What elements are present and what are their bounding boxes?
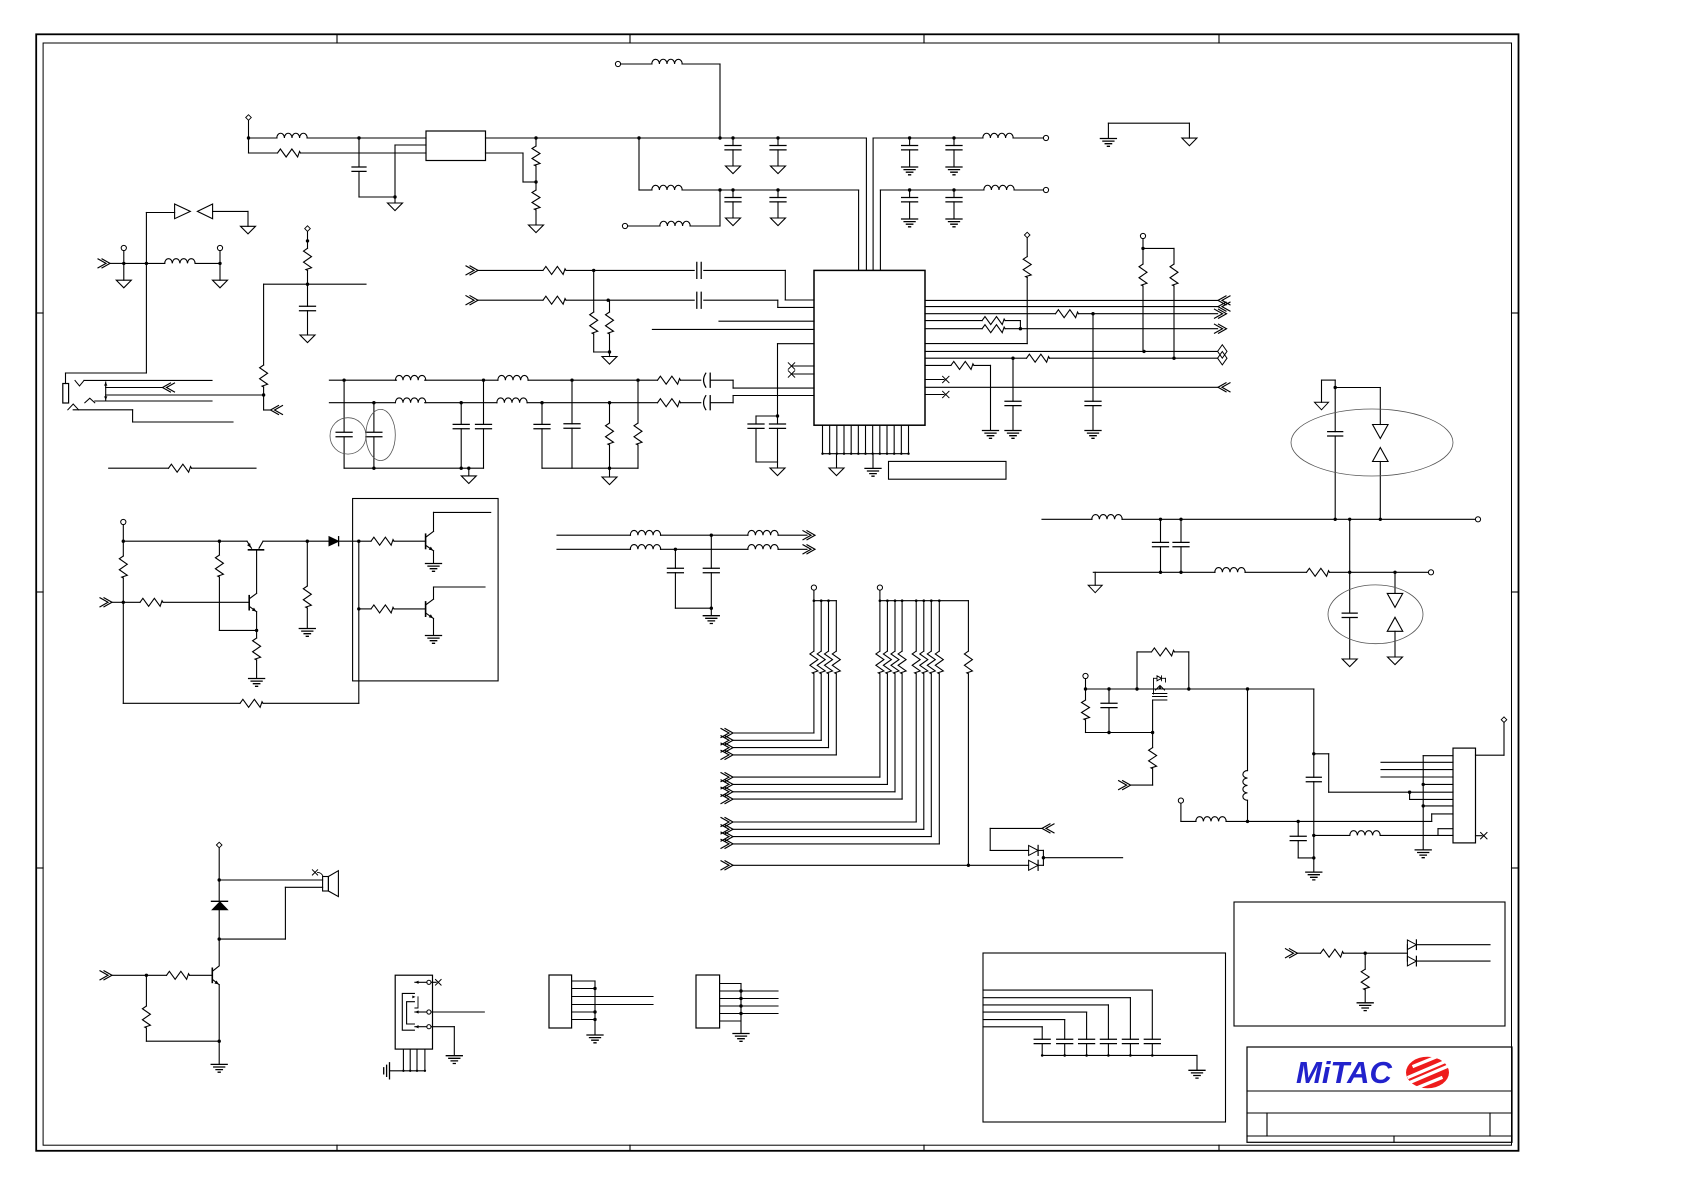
terminal J15: [877, 585, 882, 590]
diode D10: [218, 880, 220, 901]
capacitor C26: [1160, 519, 1162, 542]
ground: [587, 1035, 603, 1043]
arrow in: [1042, 824, 1054, 833]
resistor R25: [1152, 648, 1175, 656]
terminal J11: [1083, 673, 1088, 678]
net stub: [719, 320, 814, 322]
wire: [249, 137, 278, 139]
contact: [85, 398, 95, 403]
diode D9: [1029, 860, 1039, 870]
wire: [990, 827, 1042, 829]
capacitor C4: [731, 188, 734, 191]
terminal J10: [1428, 570, 1433, 575]
wire: [721, 861, 733, 870]
wire: [1416, 944, 1490, 946]
wire: [711, 402, 733, 404]
resistor R11: [609, 403, 611, 423]
jack pin3: [427, 1025, 431, 1029]
wire: [433, 619, 435, 636]
wire: [73, 409, 132, 411]
capacitor C28: [1349, 572, 1351, 613]
diode D1: [175, 204, 191, 219]
no-connect: [793, 373, 814, 375]
capacitor C20: [697, 292, 701, 308]
terminal P1: [246, 115, 252, 121]
power flag: [1094, 572, 1096, 585]
resistor R8: [307, 241, 309, 248]
capacitor C22: [777, 416, 779, 424]
wire: [778, 548, 807, 550]
jack pin2: [427, 1010, 431, 1014]
wire: [263, 540, 307, 542]
wire: [1344, 952, 1366, 954]
wire: [95, 400, 212, 402]
wire: [1014, 189, 1043, 191]
ellipse mark: [366, 409, 395, 460]
wire: [778, 343, 815, 345]
capacitor C32: [710, 535, 712, 568]
terminal P2: [305, 226, 311, 232]
resistor R23: [1307, 568, 1330, 576]
wire: [566, 299, 608, 301]
ellipse mark: [330, 418, 366, 454]
capacitor C8: [909, 190, 911, 198]
connector CN3 pins: [572, 980, 595, 982]
contact: [75, 381, 84, 387]
resistor R38: [1321, 949, 1344, 957]
wire: [557, 548, 631, 550]
capacitor C2: [731, 136, 734, 139]
wire: [638, 138, 640, 190]
resistor R28: [140, 598, 163, 606]
wire: [263, 702, 359, 704]
capacitor C29: [1108, 689, 1110, 703]
wire: [925, 364, 951, 366]
ground: [394, 197, 396, 203]
wire: [264, 283, 366, 285]
inductor L14: [1350, 831, 1380, 836]
wire: [1122, 518, 1161, 520]
diode D11: [1407, 940, 1416, 950]
wire: [112, 601, 123, 603]
wire: [661, 534, 712, 536]
capacitor C18: [571, 380, 573, 424]
wire: [974, 364, 991, 366]
jack shield pins: [402, 1049, 404, 1071]
wire: [1042, 1054, 1197, 1056]
resistor R1: [278, 149, 301, 157]
transistor Q4: [425, 602, 427, 616]
capacitor C30: [1313, 754, 1315, 778]
switch arrow: [105, 382, 107, 400]
ground: [529, 225, 544, 233]
terminal J6: [1140, 233, 1145, 238]
ground: [1415, 850, 1431, 858]
terminal P3: [1024, 232, 1030, 238]
no-connect: [1476, 835, 1483, 837]
capacitor C17: [541, 403, 543, 425]
ground: [241, 226, 256, 234]
connector CN4 pins: [720, 983, 741, 985]
wire: [858, 190, 860, 270]
inductor L3: [652, 59, 682, 64]
net out1: [925, 299, 1218, 301]
wire: [594, 351, 610, 353]
wire: [110, 262, 124, 264]
ground: [777, 462, 779, 468]
resistor array RA1: [813, 601, 815, 651]
inductor L2: [652, 185, 682, 190]
capacitor C19: [697, 262, 701, 278]
wire: [1038, 849, 1043, 851]
wire: [682, 63, 720, 65]
speaker LS1: [323, 877, 329, 892]
bus: [814, 600, 836, 602]
diode D3: [1373, 425, 1389, 439]
arrow in: [100, 598, 112, 607]
wire: [433, 512, 435, 531]
inductor L6: [984, 185, 1014, 190]
resistor R14: [543, 296, 566, 304]
terminal P5: [216, 842, 222, 848]
diode D2: [197, 204, 212, 219]
border fold ticks: [336, 34, 338, 43]
ground: [609, 468, 611, 477]
transistor Q5: [1154, 676, 1166, 681]
wire: [1313, 835, 1315, 858]
inductor L17: [630, 530, 660, 535]
wire: [704, 269, 786, 271]
connector CN4: [696, 975, 720, 1028]
wire: [1013, 137, 1043, 139]
resistor R20: [1023, 257, 1031, 278]
title block: [1247, 1047, 1512, 1142]
inductor L4: [660, 221, 690, 226]
resistor R33: [359, 540, 371, 542]
wire: [249, 152, 278, 154]
wire: [1416, 960, 1490, 962]
wire: [681, 379, 701, 381]
terminal J13: [121, 519, 126, 524]
capacitor C31: [1297, 821, 1299, 836]
ground: [1188, 123, 1190, 138]
resistor R19: [982, 325, 1005, 333]
wire: [925, 357, 1013, 359]
diode D5: [1394, 572, 1396, 593]
net out2: [925, 306, 1218, 308]
wire: [704, 299, 778, 301]
capacitor C3: [776, 136, 779, 139]
wire: [1005, 328, 1020, 330]
inductor L1: [277, 133, 307, 138]
box RT1: [426, 131, 486, 161]
wire: [1314, 753, 1329, 755]
wire: [1079, 313, 1094, 315]
wire: [84, 379, 212, 381]
resistor R16: [609, 300, 611, 312]
bypass caps C33-C38: [1144, 1039, 1160, 1043]
wire: [675, 607, 711, 609]
wire: [478, 269, 543, 271]
wire: [218, 939, 220, 965]
IC bottom pin bus: [822, 425, 824, 454]
inductor L14 wire: [1314, 834, 1350, 836]
wire: [486, 137, 537, 139]
net stub: [652, 328, 814, 330]
ground: [1107, 123, 1109, 138]
logo globe: [1406, 1057, 1449, 1089]
resistor R4: [1142, 248, 1144, 264]
capacitor C11: [704, 373, 706, 387]
capacitor C9: [953, 190, 955, 198]
wire rail2: [329, 402, 374, 404]
bypass wires: [983, 989, 1152, 991]
wire: [425, 379, 484, 381]
resistor R31: [240, 699, 263, 707]
resistor R6: [109, 467, 169, 469]
wire: [879, 190, 881, 270]
diode D8: [1029, 845, 1039, 855]
resistor R36: [167, 971, 190, 979]
arrow in: [466, 296, 478, 305]
terminal J8: [217, 245, 222, 250]
wire: [433, 551, 435, 563]
ground: [872, 454, 874, 468]
wire: [1330, 571, 1350, 573]
inductor L20: [748, 545, 778, 550]
IC U1: [814, 270, 925, 425]
wire rail1: [329, 379, 344, 381]
capacitor C14: [373, 403, 375, 432]
wire: [213, 210, 248, 212]
resistor R18: [982, 317, 1005, 325]
inductor L12: [1092, 515, 1122, 520]
ground: [123, 263, 125, 280]
net stub: [1381, 776, 1453, 778]
ground: [836, 454, 838, 468]
wire: [263, 395, 265, 410]
box BYP: [983, 953, 1226, 1122]
wire: [1298, 952, 1321, 954]
wire: [145, 213, 147, 264]
wire: [1152, 700, 1154, 733]
wire: [1226, 820, 1248, 822]
wire: [433, 587, 435, 599]
wire: [778, 534, 807, 536]
wire: [395, 144, 426, 146]
wire: [256, 612, 258, 631]
resistor R3: [532, 190, 540, 210]
power flag: [1315, 402, 1329, 410]
no-connect: [925, 379, 944, 381]
wire: [478, 299, 543, 301]
wire: [756, 415, 778, 417]
net out3: [925, 350, 1218, 352]
wire gnd rail2: [542, 467, 638, 469]
wire: [1245, 571, 1307, 573]
wire: [925, 313, 1056, 315]
inductor L19: [630, 545, 660, 550]
wire: [925, 320, 982, 322]
wire: [1335, 387, 1380, 389]
transistor Q3: [425, 534, 427, 548]
capacitor C15: [460, 403, 462, 425]
box IR1: [1234, 902, 1505, 1026]
ground: [710, 608, 712, 615]
resistor R22: [951, 361, 974, 369]
wire: [218, 985, 220, 1041]
arrow in: [100, 971, 112, 980]
inductor L7: [165, 259, 195, 264]
wire rail 732: [1086, 732, 1153, 734]
wire rail 821: [1181, 820, 1196, 822]
box AMP1: [353, 499, 499, 681]
connector CN2: [1453, 748, 1476, 843]
resistor R7: [263, 284, 265, 365]
capacitor C7: [953, 138, 955, 146]
wire bus: [1423, 755, 1453, 757]
wire: [711, 379, 733, 381]
capacitor C25: [1334, 388, 1336, 432]
arrow out: [271, 406, 283, 415]
resistor R2: [535, 138, 537, 146]
wire: [106, 387, 162, 389]
jack bracket: [402, 993, 414, 1030]
wire: [661, 548, 676, 550]
resistor R13: [543, 266, 566, 274]
terminal P4: [1501, 717, 1507, 723]
diode D4: [1373, 448, 1389, 462]
capacitor C27: [1180, 519, 1182, 542]
wire: [925, 343, 1027, 345]
capacitor C16: [483, 380, 485, 424]
ground: [300, 335, 315, 343]
resistor R15: [593, 270, 595, 312]
ellipse mark: [1291, 409, 1453, 476]
wire: [865, 138, 867, 270]
jack pin1: [427, 980, 431, 984]
resistor R32: [306, 541, 308, 586]
transistor Q1: [249, 549, 264, 551]
contact: [68, 404, 79, 410]
wire: [528, 379, 572, 381]
wire: [1423, 783, 1453, 785]
resistor R10: [658, 399, 681, 407]
capacitor C13: [343, 380, 345, 432]
capacitor C33: [674, 549, 676, 568]
net out4: [925, 386, 1218, 388]
wire: [690, 225, 720, 227]
wire: [1050, 357, 1218, 359]
arrow in: [98, 259, 110, 268]
wire: [1137, 651, 1152, 653]
transistor Q2: [248, 596, 250, 610]
resistor array RA2: [879, 601, 881, 651]
resistor R12: [637, 380, 639, 423]
resistor R35: [967, 601, 969, 651]
connector CN3: [549, 975, 572, 1028]
ground: [384, 1063, 390, 1079]
wire gnd rail: [344, 467, 483, 469]
arrow out: [163, 383, 175, 392]
wire: [1380, 834, 1438, 836]
inductor L16: [1247, 689, 1249, 771]
svg-text:MiTAC: MiTAC: [1296, 1055, 1392, 1090]
wire rail 689: [1086, 688, 1110, 690]
resistor R29: [256, 630, 258, 638]
no-connect: [925, 394, 944, 396]
inductor L18: [748, 530, 778, 535]
wire rail 519: [1042, 518, 1092, 520]
capacitor C10: [307, 284, 309, 306]
wire: [1423, 805, 1453, 807]
wire: [527, 402, 542, 404]
ground: [219, 263, 221, 280]
capacitor C1: [358, 138, 360, 167]
arrow in: [1119, 781, 1131, 790]
wire: [1313, 689, 1315, 754]
resistor R17: [1056, 310, 1079, 318]
net stub: [1381, 769, 1453, 771]
terminal J7: [121, 245, 126, 250]
transistor Q6: [211, 968, 213, 982]
diode D6: [1387, 617, 1403, 631]
inductor L15: [1196, 817, 1226, 822]
terminal J12: [1178, 798, 1183, 803]
connector JK2: [395, 975, 432, 1049]
resistor R5: [1173, 248, 1175, 264]
node n1: [247, 136, 250, 139]
diode D12: [1407, 956, 1416, 966]
ellipse mark: [1328, 585, 1423, 644]
resistor R21: [1027, 354, 1050, 362]
wire: [339, 540, 359, 542]
ground: [609, 352, 611, 357]
wire: [195, 262, 220, 264]
wire: [1409, 792, 1411, 799]
wire: [557, 534, 631, 536]
net stub: [1381, 761, 1453, 763]
terminal J5: [1043, 187, 1048, 192]
wire: [925, 328, 982, 330]
wire: [1108, 122, 1189, 124]
wire: [719, 190, 721, 226]
inductor L9: [498, 375, 528, 380]
wire: [425, 402, 462, 404]
wire: [163, 601, 249, 603]
wire: [1379, 462, 1381, 520]
capacitor C12: [704, 396, 706, 410]
wire: [566, 269, 594, 271]
terminal J14: [811, 585, 816, 590]
wire: [756, 461, 778, 463]
wire: [112, 974, 146, 976]
resistor R39: [1364, 953, 1366, 969]
capacitor C24: [1012, 358, 1014, 401]
diode D7: [329, 537, 339, 546]
wire: [307, 137, 359, 139]
label box: [889, 461, 1007, 479]
wire: [219, 629, 256, 631]
resistor R9: [658, 376, 681, 384]
no-connect: [793, 365, 814, 367]
capacitor C5: [776, 188, 779, 191]
wire: [285, 886, 322, 888]
wire: [190, 974, 213, 976]
inductor L5: [983, 133, 1013, 138]
wire: [486, 152, 524, 154]
connector JK1 body: [63, 384, 69, 404]
